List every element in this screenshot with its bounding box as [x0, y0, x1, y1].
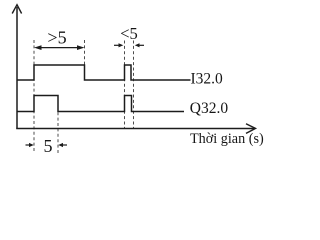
svg-text:Thời gian (s): Thời gian (s) [190, 131, 264, 147]
dashed guide x=58 (Q32.0 fall / 5s end) [57, 96, 59, 153]
svg-text:Q32.0: Q32.0 [190, 100, 229, 117]
waveform I32.0 [17, 65, 191, 80]
svg-text:>5: >5 [47, 28, 66, 48]
dimension arrow >5 (double-headed) [37, 47, 82, 49]
dashed guide x=124.5 (narrow pulse rise) [124, 41, 126, 129]
dashed guide x=84.5 (I32.0 fall) [84, 40, 86, 66]
x-axis (time) [16, 128, 254, 130]
svg-text:<5: <5 [120, 24, 138, 43]
dashed guide x=34 (rising edges / 5s start) [33, 40, 35, 153]
waveform Q32.0 [17, 96, 184, 112]
y-axis arrowhead [12, 5, 21, 14]
dimension arrows <5 (pointing inward) [114, 44, 120, 46]
y-axis [16, 7, 18, 129]
svg-text:I32.0: I32.0 [191, 71, 224, 88]
x-axis arrowhead [246, 124, 256, 134]
svg-text:5: 5 [44, 136, 53, 156]
dimension arrows 5 (bottom, pointing inward) [26, 144, 32, 146]
dashed guide x=133.5 (5s window end) [133, 41, 135, 129]
